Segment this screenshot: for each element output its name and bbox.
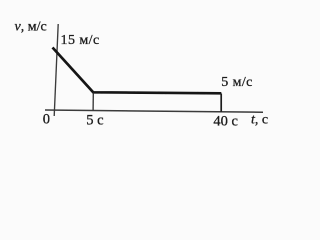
riser at t=5 bbox=[92, 93, 94, 111]
svg-text:v, м/с: v, м/с bbox=[15, 20, 47, 35]
svg-text:0: 0 bbox=[43, 111, 50, 127]
drop at t=40 bbox=[220, 94, 222, 112]
svg-text:15 м/с: 15 м/с bbox=[61, 33, 100, 48]
graph line: deceleration from 15 m/s to 5 m/s, then constant 5 m/s bbox=[53, 48, 222, 94]
svg-text:5 с: 5 с bbox=[86, 113, 103, 129]
svg-text:t, с: t, с bbox=[251, 113, 268, 128]
time axis (t) bbox=[45, 110, 263, 112]
velocity axis (v) bbox=[54, 24, 58, 116]
svg-text:40 с: 40 с bbox=[213, 114, 238, 130]
svg-text:5 м/с: 5 м/с bbox=[221, 75, 252, 90]
